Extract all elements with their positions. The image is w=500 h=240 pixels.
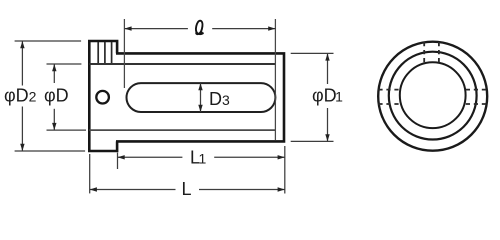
dimension D3 [200,83,202,112]
front view outer circle [378,42,487,151]
dimension phiD [47,64,87,130]
bore line bottom [89,129,275,131]
svg-text:L1: L1 [190,148,207,168]
dimension phiD2 [15,41,86,151]
dimension l [124,28,275,30]
dimension L1 [118,146,285,194]
svg-text:φD: φD [44,86,69,106]
bore line top [89,63,275,65]
slot (stadium) [127,83,276,112]
radial hole top (hidden dashed lines) [424,42,439,63]
bore end line [274,19,276,140]
bore start extension line [123,19,125,88]
svg-text:φD1: φD1 [312,86,343,106]
label l (script ell) [196,21,203,34]
set screw hole [96,91,109,104]
svg-text:φD2: φD2 [4,86,37,106]
body outline [116,53,284,141]
collar flange outline [89,41,117,151]
radial hole left (hidden dashed lines) [378,90,399,104]
svg-text:D3: D3 [209,89,230,109]
dimension phiD1 [291,53,334,141]
svg-text:L: L [182,179,192,199]
front view bore circle [400,62,466,128]
dimension L [90,154,285,193]
radial hole right (hidden dashed lines) [466,90,487,104]
front view middle circle [389,52,477,140]
knurl hatch lines on collar band [98,42,111,64]
